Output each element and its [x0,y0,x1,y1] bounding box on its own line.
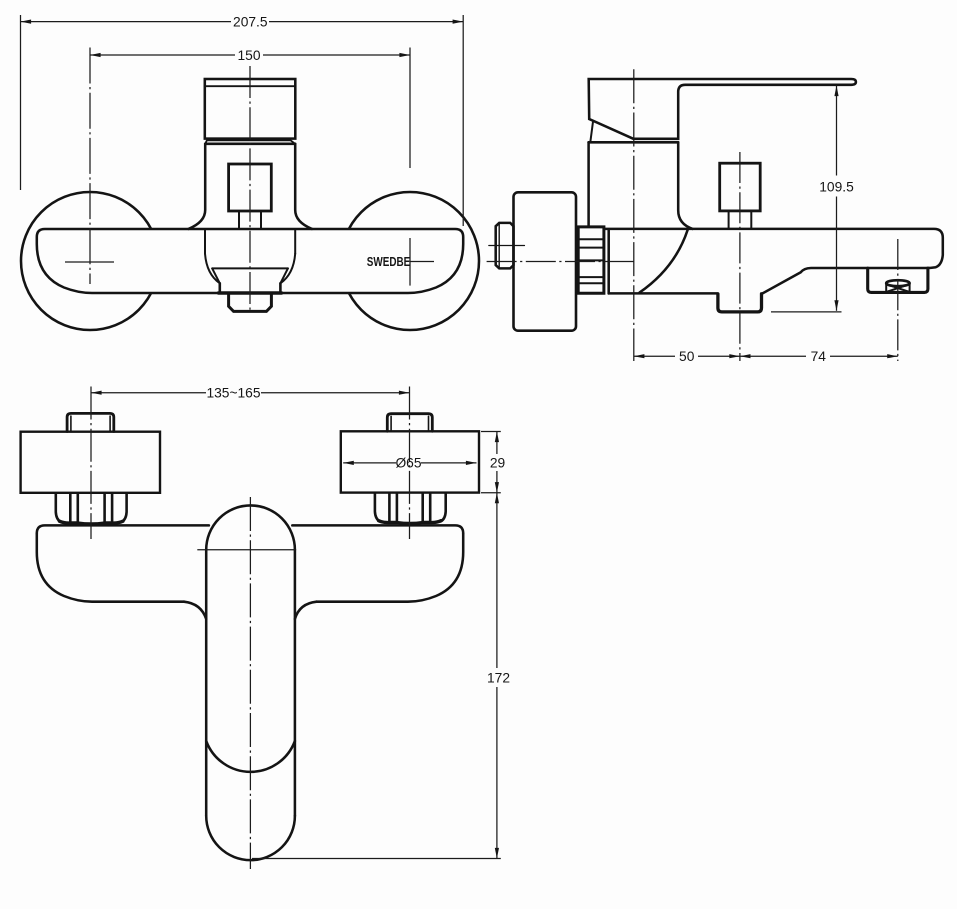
dim Ø65 line [343,462,396,464]
dim 50 line [634,355,675,357]
dim 172 line [496,493,498,668]
dim 172 bottom extension [252,858,501,860]
shower outlet block side [718,294,762,312]
dim 109.5 line lower [836,197,838,311]
spout capsule left side [205,550,208,816]
arrow O65 left [343,461,354,465]
column body top edge [205,143,295,146]
side view horizontal centerline [487,261,634,263]
cartridge collar groove [205,140,295,144]
housing right edge with fillet [678,142,692,229]
beam left end [37,533,184,601]
diverter knob neck right [260,211,262,229]
column lower body left side with flare [189,144,206,229]
body bottom big arc [640,230,688,293]
arrow 207.5 left [21,20,32,24]
right wall flange circle [341,192,479,330]
svg-text:207.5: 207.5 [233,15,268,30]
knob neck side right [750,211,752,229]
dim 150 extension right / circle centerline [409,48,411,169]
arrow 109.5 top [834,86,838,97]
left flange block [21,432,160,493]
left hex nut [56,494,127,525]
outlet side right [279,283,282,293]
body bottom arc left [205,254,220,284]
handle back corner edge [590,122,593,142]
arrow 50 right [729,354,740,358]
aerator insert ellipse [886,280,909,286]
beam fillet into spout left [184,602,206,619]
front column centerline [249,66,251,310]
aerator insert box with cross [886,284,909,292]
svg-text:135~165: 135~165 [206,386,260,401]
beam bottom view top edge left part [37,525,209,533]
mounting nut ribbed [577,227,604,293]
svg-text:50: 50 [679,349,695,364]
arrow 50 left [634,354,645,358]
arrow 172 top [495,493,499,504]
arrow 207.5 right [453,20,464,24]
right hex nut [375,493,446,524]
side view cartridge axis centerline [633,69,635,361]
svg-text:29: 29 [490,456,506,471]
bottom view right axis centerline [409,387,411,540]
dim 207.5 line [21,21,232,23]
spout opening inner arc [206,741,295,772]
fitting centerline [489,245,525,247]
shower outlet axis centerline [739,152,741,361]
diverter knob front [229,164,272,211]
eccentric pipe fitting [496,223,514,269]
right eccentric cap [387,414,432,432]
arrow O65 right [466,461,477,465]
left circle vertical centerline [89,48,91,285]
body bottom arc right [280,254,295,284]
dim 109.5 bottom extension [771,311,842,313]
body hidden sides below bar [204,229,206,254]
cartridge housing top edge [589,141,679,144]
svg-text:SWEDBE: SWEDBE [367,254,411,269]
svg-text:150: 150 [237,48,260,63]
left eccentric cap [67,413,114,431]
diverter knob side [720,163,761,211]
wall block side [514,192,577,330]
arrow 109.5 bottom [834,300,838,311]
beam bottom view top edge right part [292,525,463,533]
beam right end [317,533,464,601]
right flange block [341,431,479,492]
left wall flange circle [21,192,159,330]
beam top edge with spout end [605,229,943,294]
cartridge cap rectangle [205,79,295,139]
spout aerator block [868,268,928,292]
dim 29 line [496,432,498,455]
diverter knob neck left [238,211,240,229]
beam fillet into spout right [295,602,317,619]
left circle horizontal centerline [65,261,114,263]
column lower body right side with flare [295,144,312,229]
dim 135~165 line [91,392,206,394]
dim 150 line [90,54,235,56]
outlet thick base line [219,291,282,294]
outlet side left [219,283,222,293]
outlet slant right [280,268,288,283]
outlet slant left [212,268,220,283]
dim 29 extension bottom [481,492,501,494]
mixer body bar [37,229,463,293]
right circle horizontal centerline [410,261,434,263]
beam bottom edge [609,292,718,295]
spout capsule right side [294,550,297,816]
svg-text:109.5: 109.5 [819,179,854,194]
handle lever and back [589,79,856,139]
arrow 74 left [740,354,751,358]
shower hose connector front [229,293,272,311]
arrow 29 bottom [495,482,499,493]
svg-text:74: 74 [811,349,827,364]
spout capsule bottom arc [206,816,295,860]
dim 29 extension top [481,431,501,433]
knob neck side left [728,211,730,229]
bottom view left axis centerline [90,387,92,540]
dimension texts [206,15,854,686]
housing left edge [587,142,590,226]
svg-text:Ø65: Ø65 [395,456,421,471]
spout capsule top arc [206,505,295,549]
cartridge cap inner line [205,85,295,87]
arrow 172 bottom [495,848,499,859]
arrow 74 right [887,354,898,358]
bottom view capsule centerline [249,497,251,869]
arrow 150 left [90,53,101,57]
svg-text:172: 172 [487,671,510,686]
dim 74 line [740,355,806,357]
dim 207.5 extension left [20,15,22,190]
arrow 29 top [495,432,499,443]
capsule horizontal centerline [197,549,295,551]
beam left end cap [607,230,610,293]
fitting inner bevel line [498,224,500,269]
dim 109.5 line upper [836,86,838,176]
dim 207.5 extension right [462,15,464,226]
outlet shoulder line [212,267,288,269]
spout axis centerline [897,239,899,361]
arrow 150 right [399,53,410,57]
right circle vertical centerline [409,238,411,286]
arrow 135~165 left [91,391,102,395]
arrow 135~165 right [399,391,410,395]
